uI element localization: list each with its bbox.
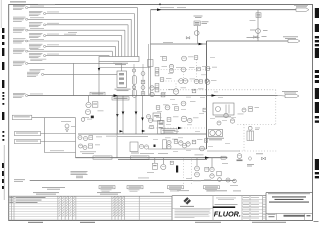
svg-text:FLUOR.: FLUOR. [214,210,241,219]
